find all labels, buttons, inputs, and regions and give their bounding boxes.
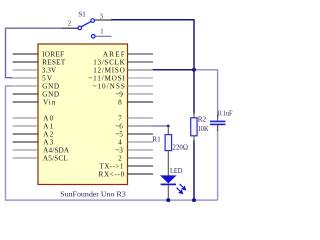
svg-text:RX<--0: RX<--0 [99,170,125,178]
svg-text:10K: 10K [198,125,209,133]
svg-text:GND: GND [42,90,59,98]
svg-text:SunFounder Uno R3: SunFounder Uno R3 [60,189,126,198]
svg-text:2: 2 [118,154,122,162]
svg-text:7: 7 [118,114,122,122]
svg-text:A1: A1 [43,122,53,130]
svg-text:2: 2 [68,21,72,28]
svg-text:A5/SCL: A5/SCL [43,154,68,162]
svg-text:R2: R2 [198,115,207,123]
svg-text:3.3V: 3.3V [42,66,57,74]
svg-text:220Ω: 220Ω [173,143,189,151]
svg-text:~5: ~5 [115,130,123,138]
svg-text:3: 3 [100,13,104,20]
svg-text:A0: A0 [43,114,53,122]
svg-text:4: 4 [118,138,122,146]
svg-text:~6: ~6 [115,122,123,130]
svg-text:GND: GND [42,82,59,90]
svg-text:A2: A2 [43,130,53,138]
svg-text:~9: ~9 [115,90,123,98]
svg-text:IOREF: IOREF [42,50,64,58]
svg-text:A3: A3 [43,138,53,146]
svg-text:RESET: RESET [42,58,66,66]
svg-text:12/MISO: 12/MISO [93,66,125,74]
svg-text:13/SCLK: 13/SCLK [93,58,125,66]
svg-text:0.1uF: 0.1uF [218,110,233,118]
svg-text:LED: LED [170,167,182,175]
svg-text:8: 8 [118,98,122,106]
svg-text:A4/SDA: A4/SDA [43,146,70,154]
svg-text:~11/MOSI: ~11/MOSI [89,74,126,82]
svg-text:~10/NSS: ~10/NSS [93,82,125,90]
svg-text:Vin: Vin [43,98,56,106]
svg-text:AREF: AREF [103,50,125,58]
svg-text:S1: S1 [78,10,86,18]
svg-text:R1: R1 [152,135,161,143]
svg-text:TX-->1: TX-->1 [99,162,124,170]
svg-text:5V: 5V [42,74,53,82]
svg-text:~3: ~3 [115,146,123,154]
svg-text:1: 1 [100,29,103,36]
